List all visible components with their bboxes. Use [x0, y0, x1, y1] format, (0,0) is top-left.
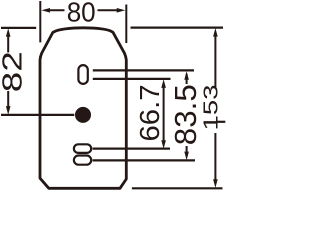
dim 80 line right segment: [98, 9, 119, 11]
dim 82 line lower segment: [7, 91, 9, 108]
82 top extension line: [1, 27, 36, 29]
leader lineB from bottom slot2: [93, 159, 195, 161]
dim 83.5 top arrow (up): [184, 71, 189, 80]
svg-text:153: 153: [199, 85, 222, 131]
svg-text:82: 82: [0, 51, 28, 92]
dim 80 right arrow: [117, 8, 126, 13]
top extension line (right): [131, 27, 224, 29]
dim 83.5 bottom arrow (down): [184, 152, 189, 161]
dim 82 line upper segment: [7, 34, 9, 53]
dim 82 bottom arrow (down): [6, 106, 11, 115]
dim 83.5 line lower segment: [186, 146, 188, 156]
dim 83.5 line upper segment: [186, 74, 188, 84]
dim 80 line left segment: [48, 9, 65, 11]
dim 80 right extension line: [125, 5, 127, 44]
svg-text:66.7: 66.7: [134, 85, 165, 142]
center dot (filled): [75, 107, 91, 123]
dim 153 top arrow (up): [213, 28, 218, 37]
dim 66.7 bottom arrow (down): [161, 140, 166, 149]
leader line1 from top slot upper cap: [93, 69, 194, 71]
svg-text:80: 80: [67, 0, 96, 28]
dim 80 left arrow: [41, 8, 50, 13]
dim 153 line upper segment: [214, 33, 216, 87]
dim 82 top arrow (up): [6, 28, 11, 37]
svg-text:83.5: 83.5: [168, 84, 203, 145]
body outline: [40, 28, 126, 188]
leader line2 from top slot lower cap: [93, 78, 171, 80]
dot leader line (left): [1, 114, 74, 116]
tick bar through 153 line: [216, 121, 225, 123]
dim 66.7 top arrow (up): [161, 79, 166, 88]
top slot (vertical stadium): [78, 65, 87, 84]
dim 153 bottom arrow (down): [213, 179, 218, 188]
bottom slot 2 (horizontal stadium): [74, 156, 91, 165]
bottom slot 1 (horizontal stadium): [74, 144, 91, 153]
dim 153 line lower segment: [214, 133, 216, 182]
dim 80 left extension line: [39, 1, 41, 42]
bottom extension line (right): [132, 187, 223, 189]
dim 66.7 line: [163, 85, 165, 143]
leader lineA from bottom slot1: [93, 148, 170, 150]
